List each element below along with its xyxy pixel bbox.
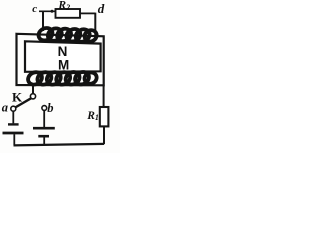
battery cell 2 long plate bbox=[33, 127, 55, 130]
svg-text:c: c bbox=[32, 3, 37, 15]
battery cell 1 long plate bbox=[3, 132, 24, 135]
battery cell 1 short plate bbox=[8, 123, 19, 125]
battery cell 1 lead from a bbox=[12, 111, 14, 123]
battery cell 2 short plate bbox=[38, 135, 49, 138]
switch K blade bbox=[15, 98, 31, 107]
svg-text:b: b bbox=[47, 101, 53, 115]
wire lead from c down to coil N bbox=[42, 11, 44, 31]
junction blob on wire bbox=[51, 10, 54, 13]
svg-text:K: K bbox=[12, 89, 23, 104]
battery cell 2 lead to rail bbox=[43, 137, 45, 144]
wire coil M right lead down to R1 bbox=[103, 86, 105, 108]
battery cell 2 lead from b bbox=[43, 110, 45, 127]
wire R1 bottom lead to rail bbox=[103, 126, 105, 144]
bottom rail wire bbox=[14, 144, 105, 146]
wire c to R2 bbox=[39, 10, 56, 12]
svg-text:M: M bbox=[58, 58, 69, 73]
background bbox=[0, 0, 120, 153]
coil N (top winding) bbox=[36, 26, 98, 44]
resistor R2 bbox=[56, 9, 81, 18]
resistor R1 bbox=[100, 107, 109, 126]
contact b bbox=[42, 106, 47, 111]
svg-text:d: d bbox=[98, 1, 105, 16]
switch K fixed contact bbox=[30, 94, 35, 99]
wire lead from d down to coil N bbox=[94, 13, 96, 37]
coil M (bottom winding) bbox=[26, 70, 99, 87]
core outer rectangle bbox=[17, 34, 104, 86]
battery cell 1 lead to rail bbox=[13, 134, 15, 145]
core inner rectangle (window) bbox=[25, 41, 101, 72]
svg-text:a: a bbox=[2, 101, 8, 115]
wire R2 to d bbox=[80, 12, 95, 14]
contact a bbox=[11, 106, 16, 111]
wire coil M left lead down to switch contact bbox=[32, 86, 34, 94]
